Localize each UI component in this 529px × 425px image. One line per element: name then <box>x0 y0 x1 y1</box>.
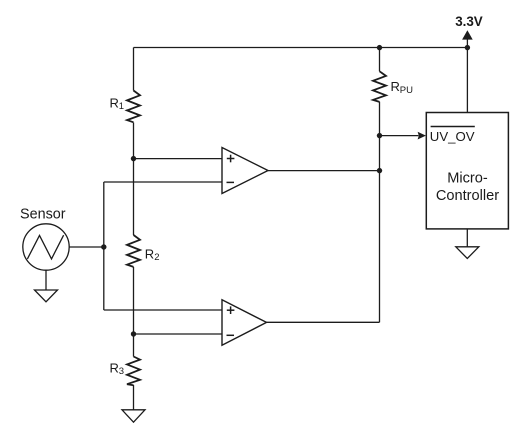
resistor R1 <box>127 91 140 123</box>
label R2 <box>145 246 160 263</box>
wire R1 to R2 <box>133 123 135 236</box>
wire RPU to op-amp outputs <box>379 102 381 322</box>
resistor R3 <box>127 357 140 386</box>
ground below sensor <box>35 290 58 302</box>
node junction R1/R2 divider <box>131 156 136 161</box>
svg-text:PU: PU <box>400 85 413 96</box>
svg-text:R: R <box>110 96 119 111</box>
node junction UV_OV tap <box>377 133 382 138</box>
label R3 <box>110 360 125 377</box>
node junction op-amp U1 output <box>377 168 382 173</box>
ground below Micro-Controller <box>456 247 479 259</box>
label R1 <box>110 96 125 113</box>
svg-text:UV_OV: UV_OV <box>430 129 475 144</box>
sensor source symbol <box>23 224 69 270</box>
ground below R3 <box>122 410 145 422</box>
svg-text:Micro-: Micro- <box>447 171 488 187</box>
op-amp U2 <box>222 300 267 345</box>
wire 3.3V drop to Micro-Controller <box>466 33 468 113</box>
wire R2 to R3 <box>133 267 135 357</box>
svg-text:Controller: Controller <box>436 188 499 204</box>
svg-text:3: 3 <box>119 366 124 377</box>
wire left bus upper <box>133 48 135 91</box>
node junction R2/R3 divider <box>131 331 136 336</box>
svg-text:3.3V: 3.3V <box>455 14 483 29</box>
svg-text:Sensor: Sensor <box>20 207 66 223</box>
wire UV_OV signal <box>380 135 419 137</box>
wire sensor to ground <box>45 270 47 290</box>
svg-text:R: R <box>110 360 119 375</box>
node junction sensor output <box>101 244 106 249</box>
wire sensor bus vertical <box>103 182 105 310</box>
wire sensor output <box>69 246 104 248</box>
node junction top at RPU <box>377 45 382 50</box>
wire divider to op-amp U1 + input <box>134 158 223 160</box>
arrow into UV_OV pin <box>418 132 426 140</box>
wire op-amp U2 output <box>267 321 380 323</box>
pin label UV_OV overline <box>431 126 475 128</box>
label RPU <box>391 79 414 96</box>
svg-text:R: R <box>145 246 154 261</box>
svg-text:2: 2 <box>154 252 159 263</box>
op-amp U1 <box>222 148 268 194</box>
wire sensor to op-amp U2 + input <box>104 309 222 311</box>
wire divider to op-amp U2 - input <box>134 333 223 335</box>
wire sensor to op-amp U1 - input <box>104 181 222 183</box>
power arrow 3.3V <box>462 30 473 39</box>
svg-text:R: R <box>391 79 400 94</box>
resistor R2 <box>127 235 140 267</box>
Micro-Controller U3 box <box>426 113 508 229</box>
wire top rail <box>134 47 468 49</box>
wire RPU bus upper <box>379 48 381 72</box>
svg-text:1: 1 <box>119 101 124 112</box>
sensor waveform <box>27 235 63 259</box>
wire op-amp U1 output <box>268 170 380 172</box>
resistor RPU <box>373 71 386 102</box>
node junction top at 3.3V <box>465 45 470 50</box>
wire R3 to ground <box>133 385 135 410</box>
wire Micro-Controller to ground <box>466 229 468 247</box>
